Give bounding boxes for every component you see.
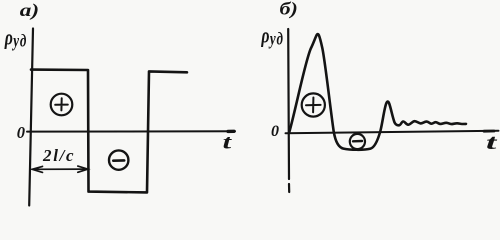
y-axis right plot [287, 29, 290, 179]
svg-text:t: t [223, 131, 232, 154]
svg-text:t: t [486, 130, 498, 154]
plus circle left plot [51, 94, 73, 116]
double-headed arrow 2l/c span [32, 166, 88, 172]
svg-text:а): а) [20, 2, 39, 21]
t-axis right end thickening [484, 130, 494, 133]
plus sign left plot [55, 98, 68, 110]
minus circle right plot [350, 134, 365, 149]
t-axis left plot [27, 130, 235, 132]
minus circle left plot [109, 150, 128, 169]
y-axis left plot [29, 29, 33, 206]
plus circle right plot [302, 93, 325, 116]
svg-text:2l/c: 2l/c [42, 146, 75, 165]
square wave curve left plot [31, 70, 187, 193]
minus sign left plot [113, 159, 124, 162]
plus sign right plot [306, 98, 321, 113]
minus sign right plot [353, 140, 362, 143]
t-axis left end ink blob [228, 130, 234, 133]
t-axis right plot [286, 131, 499, 134]
svg-text:ρуд: ρуд [4, 26, 27, 51]
svg-text:ρуд: ρуд [261, 24, 284, 49]
pressure curve right plot [289, 34, 466, 150]
y-axis lower dash right plot [288, 184, 290, 192]
svg-text:б): б) [280, 0, 298, 19]
svg-text:0: 0 [17, 123, 25, 142]
svg-text:0: 0 [271, 123, 279, 140]
